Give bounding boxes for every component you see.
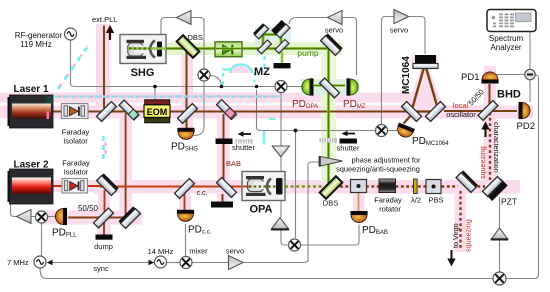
photodetector PD_BAB [350,211,367,223]
DBS 1 [177,35,200,58]
beam: squeezed dashed OPA output [340,114,490,249]
wire OPA servo to OPA piezo [280,157,282,217]
phase adjust pointer [319,156,343,166]
dashed beam below MZ input [263,56,265,72]
servo amp MZ [328,11,343,25]
beam: laser1 main 1064 row [53,111,412,113]
beam: laser2 output row [53,185,100,187]
MZ mirror top-right with piezo [271,20,290,39]
svg-text:servo: servo [390,26,408,35]
faraday rotator [379,179,396,193]
svg-text:Faraday: Faraday [374,196,402,205]
beam: 50/50 down to dump [103,218,105,235]
mixer PLL [36,211,48,223]
dashed beam diagonal to ext.PLL [58,43,90,89]
wire HV amp to PZT [499,197,501,228]
svg-text:rotator: rotator [379,205,401,214]
wire EOM drive drop [154,87,156,100]
mixer c.c. [180,257,192,269]
svg-text:PD1: PD1 [461,72,479,83]
MC1064 mirror bottom-left [402,102,422,122]
wire RF tap to SHG mixer [210,76,222,87]
photodetector PD_SHG [177,128,194,140]
wire BHD right loop [506,75,539,279]
mixer PZT [493,272,506,285]
halo: characterization / PD1 column [484,66,497,186]
mirror A (ext.PLL pickoff) [97,102,117,122]
svg-text:14 MHz: 14 MHz [148,247,174,256]
svg-text:BAB: BAB [226,159,241,168]
halo: SHG column [182,50,194,132]
beam: ext.PLL vertical [103,26,105,109]
svg-text:phase adjustment for: phase adjustment for [351,156,421,165]
beam: BAB through mirror to dump [222,194,224,202]
svg-text:squeezing: squeezing [464,219,473,252]
svg-text:Isolator: Isolator [64,168,89,177]
junction dots [153,85,297,133]
wire c.c. servo to phase adjust [243,162,319,263]
wire mixer-osc links bottom [167,262,181,264]
sync arrowheads [47,260,53,266]
beam: c.c. down to PD_c.c. [184,192,186,211]
halo: green SHG-to-MZ row [122,43,262,56]
beam: green tap row PD_OPA PD_MZ [314,84,345,87]
svg-text:PD2: PD2 [517,121,535,132]
svg-text:oscillator: oscillator [446,110,476,119]
wire PD_c.c. to bottom mixer [185,224,187,256]
svg-text:mixer: mixer [189,247,208,256]
beam: laser2 row to OPA (c.c.) [100,186,242,188]
beam: BHD to PD1 [489,84,491,106]
mixer MC [376,125,388,137]
mirror D (BAB pickoff) [217,100,237,120]
faraday isolator FI2 [62,179,88,194]
beam: SHG interior [128,47,166,50]
svg-text:characterization: characterization [492,122,501,173]
svg-text:shutter: shutter [337,144,360,153]
beam: OPA internal dashed [248,185,278,187]
PBS [426,180,441,194]
oscillator 14MHz [155,256,167,268]
wire BAB servo to BAB mixer [281,230,289,246]
MC1064 mirror bottom-right [426,102,446,122]
beam: green SHG to MZ [128,47,260,50]
wire 7MHz to bottom bus [40,268,493,279]
mirror C (SHG steering) [178,104,198,124]
dashed beam laser2 vertical [102,136,105,162]
svg-text:RF-generator: RF-generator [15,31,63,40]
amp BAB (points up) [271,218,289,231]
wire RF branch along y130 [257,90,376,131]
laser L2 [8,169,54,204]
beam: local oscillator to BHD [444,110,517,112]
dashed beam horizontal [55,95,281,98]
waveplate lambda/2 [414,179,418,194]
shutter 1 closed [216,131,253,144]
beam: squeezed to Virgo arrow [451,250,453,259]
svg-text:Laser 1: Laser 1 [14,84,49,95]
isolator 532 [215,42,242,57]
halo: OPA / squeezed row [93,180,520,194]
halo: to-Virgo column [455,188,467,252]
beam: OPA interior [243,186,249,188]
MZ dark port dump [274,63,291,68]
svg-text:OPA: OPA [249,204,272,216]
oscillator RF 119MHz [65,28,77,40]
photodetector PD_MZ [347,78,359,95]
svg-text:squeezing/anti-squeezing: squeezing/anti-squeezing [336,165,420,174]
wire PD1 to subtractor [496,74,525,76]
wire sync line [51,262,150,264]
wire SHG mixer to servo to SHG piezo [191,18,204,70]
photodetector PD1 [481,72,498,84]
beam: BAB column [223,114,225,180]
mixer SHG [198,69,210,81]
beam: through 532 isolator [216,47,241,50]
wire MZ servo to PD_MZ [341,18,357,76]
faraday isolator FI1 [62,104,89,119]
servo amp MC (points right) [394,10,409,24]
svg-text:shutter: shutter [232,143,255,152]
beam bridge hop [230,65,252,74]
svg-text:Isolator: Isolator [63,137,88,146]
svg-text:Faraday: Faraday [62,128,90,137]
wire PLL servo to mixer [29,216,36,218]
subtractor node BHD [525,69,535,79]
wire OPA mixer down to servo triangle [280,93,282,147]
beamsplitter 50/50 PLL [94,208,114,228]
photodetector PD_PLL [55,208,67,225]
mirror F (BAB combine) [217,178,237,198]
wire PLL mixer to PD_PLL [48,216,56,218]
wire laser2 control [11,204,17,217]
svg-text:7 MHz: 7 MHz [7,258,29,267]
servo amp PLL [17,210,32,224]
spectrum analyzer [487,10,536,32]
halo: main 1064 beam row [0,106,533,119]
mirror-box tap [351,180,367,193]
svg-text:MZ: MZ [254,66,270,78]
beam dump BAB [211,202,233,208]
servo amp OPA (points down) [272,146,289,157]
halo: MZ block [255,27,291,55]
mirror G (c.c. to PD) [175,179,195,199]
beam: SHG column [186,50,188,129]
halo: PD_BAB column [353,192,365,212]
beamsplitter green tap [320,78,340,98]
halo: PD_OPA row [301,79,359,95]
oscillator 7MHz [34,256,46,268]
beam: dashes inside SHG [129,48,153,50]
halo: laser2 down column [98,192,111,235]
SHG box [120,35,166,64]
svg-text:sync: sync [93,264,109,273]
halo: BAB column [217,113,230,201]
halo: laser2 row [9,180,93,192]
svg-text:local: local [453,101,469,110]
MZ beamsplitter output [275,40,289,54]
svg-text:SHG: SHG [131,67,155,79]
svg-text:Spectrum: Spectrum [489,34,524,43]
svg-text:to Virgo: to Virgo [451,223,460,248]
cyan bits near shutter column [263,131,266,145]
laser L1 [8,95,54,128]
svg-text:DBS: DBS [188,33,203,42]
svg-text:PBS: PBS [428,196,443,205]
wire MC servo to MC piezo [409,17,426,55]
wire PD_SHG to SHG mixer [194,81,204,136]
svg-text:c.c.: c.c. [197,190,208,197]
mirror PLL fold [118,206,140,228]
photodetector PD2 [519,102,531,119]
halo: pickoff column x126 [120,112,133,219]
mixer OPA [275,81,287,93]
svg-text:Laser 2: Laser 2 [14,160,49,171]
EOM [144,100,170,123]
photodetector PD_OPA [302,78,314,95]
svg-text:119 MHz: 119 MHz [20,40,51,49]
svg-text:Faraday: Faraday [62,159,90,168]
beam: MZ dark port to dump [281,52,284,63]
OPA box [242,172,285,201]
svg-text:squeezing: squeezing [478,146,487,179]
wire BAB mixer to PD_BAB [301,225,359,246]
beam: pump column [327,48,330,183]
halo: dashed-beam band [0,93,437,103]
beam: ext.PLL exit arrow [109,33,111,41]
halo: MC1064 cavity [404,58,446,114]
svg-text:EOM: EOM [147,107,168,117]
halo: PD_c.c. column [179,193,191,212]
mirror B (PLL pickoff) [119,100,139,120]
wire PLL mixer to 7MHz osc [41,223,43,256]
MZ beamsplitter input [258,40,272,54]
svg-text:MC1064: MC1064 [401,56,412,94]
svg-text:pump: pump [297,48,319,58]
svg-text:λ/2: λ/2 [411,196,421,205]
svg-text:DBS: DBS [323,199,338,208]
beam: PLL row PD_PLL to mirror [68,217,126,219]
wire PZT mixer to HV amp [499,240,501,273]
mirror laser2 fold [97,173,119,195]
beam: tap down to PD_BAB [358,193,360,212]
photodetector PD_c.c. [177,210,194,222]
beam: MZ loop [262,33,282,49]
beam: pump into OPA dashed [285,185,323,187]
beam: laser2 to PLL bs [104,190,106,218]
halo: PLL row [40,211,142,225]
mirror PZT [483,176,508,201]
wire PD2 to subtractor [529,80,531,103]
halo: MZ output row [262,43,342,56]
svg-text:ext.PLL: ext.PLL [92,15,117,24]
mixer BAB [289,239,301,251]
mirror E (pump fold) [321,33,343,55]
MC1064 top mirror with piezo [413,55,438,69]
amp PZT (points up) [491,228,508,241]
shutter 2 open [320,131,358,144]
svg-text:dump: dump [94,242,113,251]
wire MC mixer to MC servo [382,17,394,126]
servo amp c.c. (points right) [229,256,244,270]
beam: pickoff column to PLL [125,113,127,216]
halo: ext.PLL column [96,24,111,112]
wire subtractor to spectrum analyzer [529,32,531,70]
DBS 2 [320,176,343,199]
servo amp SHG [177,11,192,25]
wire RF-generator distribution [71,40,304,87]
wire PD_MC1064 to MC mixer [388,130,398,132]
beam: MC1064 cavity legs [404,64,441,124]
mirror Virgo flip [456,170,478,192]
svg-text:servo: servo [325,26,343,35]
svg-text:BHD: BHD [497,89,521,101]
photodetector PD_MC1064 [395,123,415,140]
MZ mirror top-left [253,23,269,39]
svg-text:servo: servo [226,247,244,256]
beam: MZ output row [260,47,330,50]
svg-text:50/50: 50/50 [78,204,99,213]
beam dump PLL [96,235,113,240]
wire MZ piezo to MZ servo [289,18,327,25]
beam: squeezed to BHD arrow [485,129,487,137]
halo: pump column [321,45,336,182]
svg-text:Analyzer: Analyzer [490,43,521,52]
svg-text:PZT: PZT [501,197,517,207]
beamsplitter BHD 50/50 [478,101,498,121]
wire branch down to BAB mixer [295,131,297,239]
